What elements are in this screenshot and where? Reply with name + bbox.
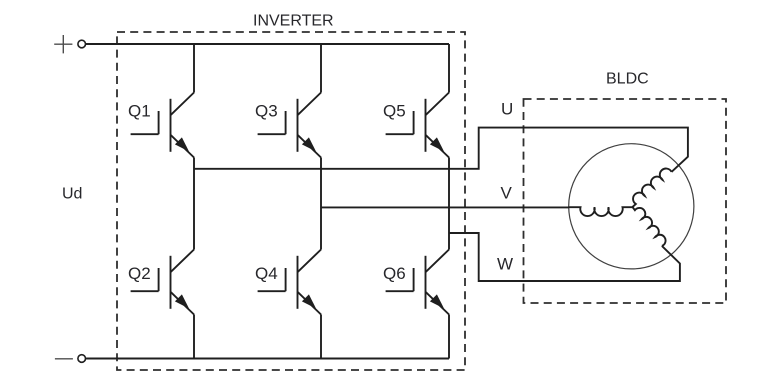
svg-text:W: W [497, 255, 513, 274]
svg-text:Q2: Q2 [128, 264, 151, 283]
svg-text:Q3: Q3 [255, 102, 278, 121]
svg-text:Q1: Q1 [128, 102, 151, 121]
svg-text:U: U [501, 100, 513, 119]
svg-text:V: V [501, 184, 513, 203]
svg-text:BLDC: BLDC [606, 71, 649, 88]
svg-text:Q4: Q4 [255, 264, 278, 283]
svg-text:Q6: Q6 [383, 264, 406, 283]
svg-text:Ud: Ud [62, 186, 82, 203]
svg-text:INVERTER: INVERTER [253, 13, 334, 30]
svg-text:Q5: Q5 [383, 102, 406, 121]
